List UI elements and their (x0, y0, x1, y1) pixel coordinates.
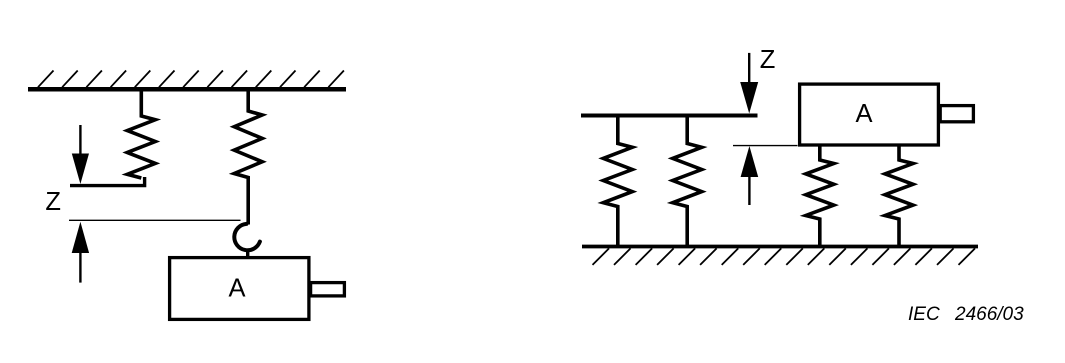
reference line (right, loaded position) (733, 145, 798, 147)
figure number IEC 2466/03 (908, 304, 1024, 325)
dimension arrow up (left Z) (72, 222, 89, 283)
spring S2 (long, with hook) (234, 87, 262, 225)
reference line (left, loaded position) (69, 219, 241, 221)
mass A box (right) (800, 84, 939, 145)
svg-text:A: A (228, 274, 245, 302)
stub connector on mass A (left) (311, 283, 345, 296)
hook on spring S2 (234, 224, 260, 250)
spring S1 (short, left) (127, 87, 155, 178)
svg-text:Z: Z (45, 188, 61, 216)
stub connector on mass A (right) (940, 106, 973, 122)
spring P1 (platform left) (603, 114, 632, 248)
svg-text:Z: Z (760, 46, 776, 74)
ceiling hatching (left diagram) (38, 71, 344, 88)
ground line (right diagram) (582, 245, 978, 249)
hook to mass link (246, 250, 249, 258)
svg-text:A: A (855, 100, 872, 128)
mass A box (left) (170, 258, 309, 320)
dimension arrow up (right Z) (741, 146, 759, 205)
dimension arrow down (right Z) (740, 53, 758, 114)
svg-text:IEC: IEC (908, 304, 940, 325)
spring P2 (platform right) (673, 114, 702, 248)
dimension arrow down (left Z) (72, 125, 89, 184)
spring B2 (under mass, right) (885, 146, 913, 248)
spring S1 bottom end plate (70, 177, 145, 186)
unloaded platform line (right) (581, 114, 758, 118)
ground hatching (right diagram) (593, 248, 976, 265)
spring B1 (under mass, left) (806, 146, 834, 248)
ceiling line (left diagram) (28, 87, 346, 92)
svg-text:2466/03: 2466/03 (954, 304, 1024, 325)
